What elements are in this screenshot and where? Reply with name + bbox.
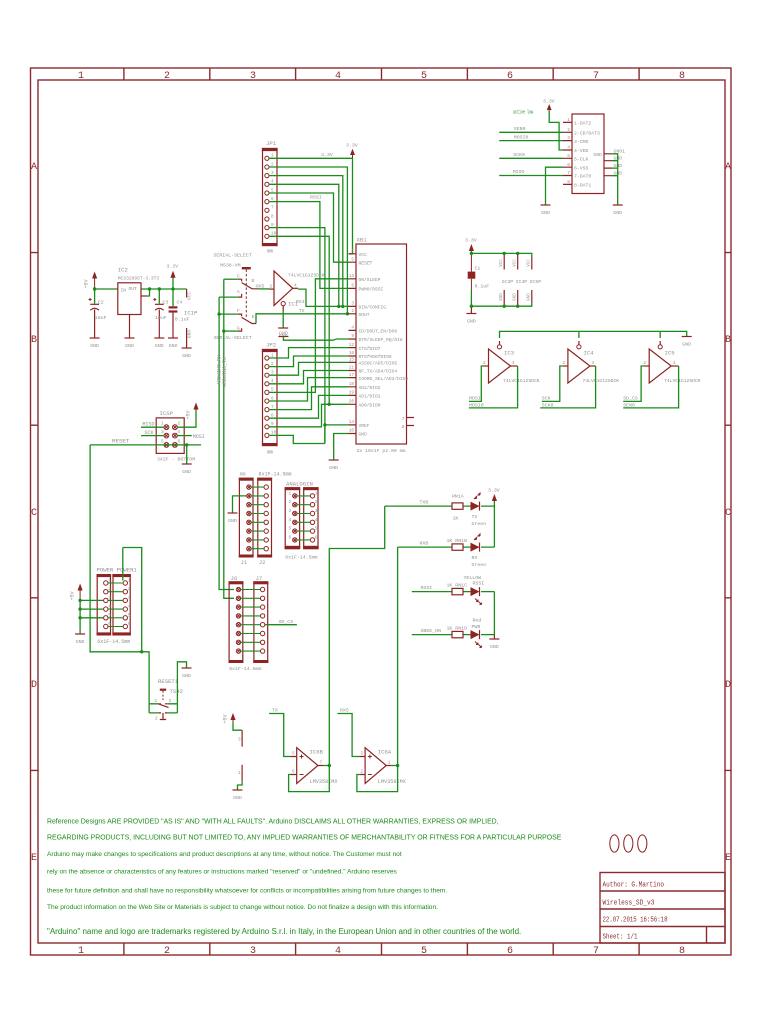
svg-text:RESET: RESET — [112, 438, 130, 445]
svg-text:SEN0: SEN0 — [623, 403, 635, 409]
svg-text:6: 6 — [567, 162, 570, 168]
LED RX — [471, 534, 487, 569]
svg-text:VCC: VCC — [528, 259, 532, 267]
svg-text:0.1uF: 0.1uF — [475, 284, 490, 290]
svg-text:3: 3 — [169, 699, 172, 704]
svg-text:17: 17 — [349, 373, 355, 378]
svg-text:OUT: OUT — [129, 286, 138, 292]
connector ICSP body — [156, 418, 184, 454]
wire SD VSS to GND — [546, 167, 564, 204]
wires J1 to J2 — [251, 487, 263, 549]
SJ pin stubs — [241, 730, 243, 746]
svg-text:RX: RX — [472, 555, 478, 561]
svg-text:GND: GND — [359, 432, 368, 438]
svg-text:DIN/CONFIG: DIN/CONFIG — [359, 305, 387, 311]
wire SJ to GND — [238, 781, 243, 789]
wire JP2 pin7 to XB1 AD2 — [269, 387, 349, 410]
svg-text:PWR: PWR — [472, 624, 481, 630]
J1 pins X — [247, 485, 251, 551]
wire IC1 enable to GND — [282, 311, 284, 328]
svg-text:GND: GND — [541, 210, 550, 216]
svg-text:MOSI0: MOSI0 — [514, 135, 529, 141]
svg-text:3X2F - BOTTOM: 3X2F - BOTTOM — [157, 457, 195, 463]
svg-text:IC1P: IC1P — [184, 310, 198, 317]
svg-text:J6: J6 — [231, 575, 238, 582]
junction dots C1 rails — [470, 252, 520, 308]
svg-text:4: 4 — [592, 361, 595, 366]
wires POWER left feeds — [80, 600, 103, 633]
svg-text:3.3V: 3.3V — [465, 238, 477, 244]
svg-text:rely on the absence or charact: rely on the absence or characteristics o… — [47, 869, 398, 876]
wire IC6B out up to TXB — [329, 506, 384, 765]
svg-text:GND: GND — [279, 331, 288, 337]
svg-text:ICSP: ICSP — [160, 410, 174, 417]
svg-text:mm: mm — [267, 450, 273, 456]
frame inner border — [38, 80, 725, 943]
svg-text:4: 4 — [128, 605, 131, 610]
wire JP2 pin4 to XB1 RF_TX — [269, 371, 349, 384]
svg-text:IC6A: IC6A — [378, 749, 392, 756]
svg-text:AD2/DIO2: AD2/DIO2 — [359, 385, 381, 391]
svg-text:GND: GND — [682, 342, 691, 348]
capacitor C4 — [169, 289, 190, 338]
svg-text:MOSI: MOSI — [193, 434, 205, 440]
svg-text:PWM0/RSSI: PWM0/RSSI — [359, 287, 384, 293]
svg-text:AD0/DIO0: AD0/DIO0 — [359, 403, 381, 409]
GND rail — [471, 303, 531, 307]
button NC stub — [160, 713, 166, 720]
svg-text:8: 8 — [567, 179, 570, 185]
svg-text:B: B — [31, 335, 37, 346]
svg-text:6: 6 — [178, 439, 181, 444]
wires ANALOG pairs — [297, 496, 310, 540]
wire JP1 pin1 to 3.3V / XB1 VCC — [269, 158, 353, 254]
+5V supply arrow POWER — [70, 584, 83, 601]
svg-text:7-DAT0: 7-DAT0 — [574, 174, 591, 180]
junction dots JP1 bundle — [323, 305, 349, 427]
svg-text:SCK0: SCK0 — [513, 152, 525, 158]
frame column numbers bottom — [78, 946, 685, 957]
frame column ticks top — [31, 68, 732, 955]
wire MISO to ICSP — [141, 426, 164, 428]
ground symbol under C2 — [90, 338, 100, 349]
svg-text:IC4: IC4 — [584, 350, 595, 357]
svg-text:C1: C1 — [475, 266, 481, 272]
svg-text:6: 6 — [315, 535, 318, 540]
wire RESET net down-right to RESET1 — [90, 445, 149, 704]
ground symbol right of IC5 — [682, 337, 692, 348]
SD pin stubs right — [604, 154, 613, 176]
wire JP2 pin8 to XB1 AD1 — [269, 395, 349, 418]
svg-text:13: 13 — [349, 274, 355, 279]
svg-text:4: 4 — [289, 518, 292, 523]
svg-text:D: D — [31, 680, 37, 691]
capacitor C1 — [468, 253, 490, 306]
svg-text:5: 5 — [567, 153, 570, 159]
switch contact F — [218, 313, 238, 315]
svg-text:8x1F-14.5mm: 8x1F-14.5mm — [229, 666, 261, 672]
svg-text:GND: GND — [182, 469, 191, 475]
J7 pins O — [260, 587, 264, 653]
svg-text:MISO: MISO — [143, 422, 155, 428]
svg-text:IC5: IC5 — [665, 350, 675, 357]
JP1 pin numbers — [271, 154, 277, 237]
wire TXB row — [385, 505, 495, 507]
svg-text:J1: J1 — [241, 559, 248, 566]
svg-text:C3: C3 — [163, 299, 169, 305]
ANALOG pin numbers — [289, 491, 318, 540]
junction dots switch — [217, 312, 225, 332]
svg-text:10uF: 10uF — [95, 315, 107, 321]
svg-text:IC6B: IC6B — [310, 749, 324, 756]
3.3V supply arrow above C4 — [167, 264, 179, 290]
svg-text:IC3P: IC3P — [502, 279, 514, 285]
svg-text:RXB: RXB — [420, 541, 429, 547]
svg-text:10uF: 10uF — [155, 315, 167, 321]
capacitor C2 — [89, 289, 107, 338]
svg-text:9: 9 — [351, 334, 354, 339]
enable rail to GND — [500, 331, 687, 338]
svg-text:GND: GND — [187, 330, 193, 339]
svg-text:1: 1 — [351, 249, 354, 254]
+5V supply arrow SJ — [223, 713, 236, 724]
buffer IC3 — [483, 341, 540, 384]
wire SEN0 to SD pin2 — [499, 131, 563, 133]
svg-text:2: 2 — [351, 309, 354, 314]
svg-text:MISO: MISO — [513, 169, 525, 175]
wire JP1 pin9 down to VREF stair — [269, 228, 325, 444]
svg-text:11: 11 — [349, 366, 355, 371]
svg-text:ASSOC/AD5/DIO5: ASSOC/AD5/DIO5 — [359, 361, 398, 367]
ground symbol under SJ — [233, 790, 243, 801]
wire switch E to XB1 DOUT — [256, 314, 349, 324]
svg-text:8: 8 — [402, 424, 405, 430]
ground symbol below XB1 — [329, 460, 339, 471]
svg-text:3: 3 — [161, 430, 164, 435]
svg-text:ARDUINO_TX: ARDUINO_TX — [222, 357, 228, 387]
svg-text:RN1A: RN1A — [452, 494, 464, 500]
regulator gnd pin — [129, 315, 131, 338]
svg-text:The product information on the: The product information on the Web Site … — [47, 904, 438, 911]
svg-text:Author: G.Martino: Author: G.Martino — [603, 882, 665, 890]
svg-text:GND: GND — [490, 644, 499, 650]
svg-text:4: 4 — [335, 946, 341, 957]
svg-text:C2: C2 — [98, 299, 104, 305]
buffer IC4 — [563, 341, 620, 384]
3.3V supply arrow C1 — [465, 238, 477, 254]
IC1 output stub — [293, 287, 298, 289]
svg-text:J2: J2 — [259, 559, 266, 566]
mounting hole ellipses — [610, 835, 619, 852]
svg-text:RX5: RX5 — [256, 283, 265, 289]
svg-text:VCC: VCC — [187, 292, 193, 301]
svg-text:GND: GND — [233, 795, 242, 801]
svg-text:3: 3 — [289, 509, 292, 514]
svg-text:DOUT: DOUT — [359, 312, 370, 318]
svg-text:RSSI: RSSI — [473, 581, 485, 587]
wire J1 pin2 to GND — [233, 496, 247, 513]
svg-text:B: B — [725, 335, 731, 346]
resistor RN1B — [447, 538, 468, 550]
connector J7 body — [253, 581, 268, 663]
svg-text:5: 5 — [351, 257, 354, 262]
wire JP2 pin2 to XB1 RTS — [269, 356, 349, 367]
svg-text:ON/SLEEP: ON/SLEEP — [359, 277, 381, 283]
wire RSSI row — [412, 591, 495, 593]
connector JP1 body — [262, 140, 278, 255]
svg-text:GND: GND — [90, 343, 99, 349]
svg-text:3: 3 — [250, 71, 256, 82]
resistor RN1D — [447, 626, 468, 638]
svg-text:+5V: +5V — [223, 714, 229, 723]
resistor RN1A — [452, 494, 464, 522]
svg-text:3.3V: 3.3V — [321, 152, 333, 158]
wire RXB row — [398, 546, 495, 548]
VCC rail — [471, 253, 531, 257]
ground symbol under C1 — [466, 314, 476, 325]
op-amp IC6A — [359, 748, 406, 785]
svg-text:JP2: JP2 — [266, 342, 276, 349]
LED RSSI — [471, 587, 482, 604]
svg-text:MC33269ST-3.3T3: MC33269ST-3.3T3 — [118, 276, 160, 282]
svg-text:1: 1 — [128, 579, 131, 584]
svg-text:2: 2 — [289, 500, 292, 505]
svg-text:Arduino may make changes to sp: Arduino may make changes to specificatio… — [47, 851, 402, 858]
switch contact C — [224, 278, 238, 280]
frame outer border — [31, 68, 732, 955]
wires J6 to J7 — [241, 590, 260, 652]
ground symbol under IC2 — [125, 338, 135, 349]
ground symbol under ICSP — [182, 464, 192, 475]
3.3V supply arrow SD — [543, 99, 555, 111]
svg-text:C: C — [725, 508, 731, 519]
svg-text:7: 7 — [593, 71, 599, 82]
wire JP2 pin1 to XB1 CTS — [269, 348, 349, 358]
svg-text:XBEE_ON: XBEE_ON — [421, 628, 442, 634]
regulator out pin jog — [141, 295, 147, 297]
ground symbol under IC1P — [182, 348, 192, 359]
button contacts row1 — [149, 703, 177, 705]
XB1 pin numbers — [349, 249, 355, 434]
C1 gnd stub — [470, 306, 472, 313]
wire IC1 out to XB1 DIN — [298, 289, 349, 306]
svg-text:SERIAL-SELECT: SERIAL-SELECT — [214, 253, 252, 259]
svg-text:GND: GND — [500, 293, 504, 301]
svg-text:7: 7 — [567, 170, 570, 176]
svg-text:3: 3 — [250, 946, 256, 957]
svg-text:1: 1 — [161, 422, 164, 427]
connector ANALOG left body — [285, 487, 301, 549]
svg-text:RX3: RX3 — [296, 299, 305, 305]
svg-text:RSSI: RSSI — [421, 585, 433, 591]
svg-text:2: 2 — [155, 716, 158, 721]
svg-text:JP1: JP1 — [266, 140, 277, 147]
svg-text:Green: Green — [472, 521, 487, 527]
ground symbol under C4 — [168, 338, 178, 349]
svg-text:SD_CS: SD_CS — [279, 619, 294, 625]
wire switch C-G vertical down to J6 pin2 — [224, 279, 234, 598]
svg-text:4: 4 — [335, 71, 341, 82]
switch contact A — [219, 296, 238, 298]
svg-text:GND: GND — [613, 210, 622, 216]
svg-text:6x1F-14.5mm: 6x1F-14.5mm — [285, 555, 317, 561]
frame row letters — [31, 162, 731, 864]
svg-text:5: 5 — [161, 439, 164, 444]
svg-text:REGARDING PRODUCTS, INCLUDING: REGARDING PRODUCTS, INCLUDING BUT NOT LI… — [47, 835, 562, 842]
svg-text:3: 3 — [238, 738, 241, 743]
svg-text:1: 1 — [388, 761, 391, 766]
buffer IC5 — [644, 341, 701, 384]
svg-text:1: 1 — [155, 699, 158, 704]
svg-text:C: C — [237, 274, 240, 280]
ANALOG right pins O — [310, 494, 314, 542]
wire button to GND — [177, 662, 186, 704]
svg-text:3: 3 — [315, 509, 318, 514]
LED TX — [471, 493, 487, 528]
svg-text:1: 1 — [315, 491, 318, 496]
svg-text:GND: GND — [593, 152, 602, 158]
svg-text:5: 5 — [421, 946, 427, 957]
svg-text:5-CLK: 5-CLK — [574, 157, 589, 163]
wire ICSP pin2 to +5V — [178, 409, 197, 427]
svg-text:RX5: RX5 — [340, 708, 349, 714]
svg-text:3.3V: 3.3V — [346, 143, 358, 149]
XB1 left pin stubs — [349, 254, 357, 434]
svg-text:2: 2 — [164, 946, 170, 957]
svg-text:3: 3 — [128, 596, 131, 601]
ground symbol below SD left — [541, 205, 551, 216]
wire XBEE_ON row — [412, 634, 495, 636]
svg-text:IC4P: IC4P — [516, 279, 528, 285]
switch arm 1 B — [242, 283, 258, 289]
wire 3.3V to SD VDD — [549, 111, 563, 151]
svg-text:VCC: VCC — [514, 259, 518, 267]
svg-text:CD/DOUT_EN/DO8: CD/DOUT_EN/DO8 — [359, 329, 398, 335]
svg-text:+5V: +5V — [70, 591, 76, 600]
svg-text:XB1: XB1 — [357, 237, 368, 244]
svg-text:16: 16 — [349, 351, 355, 356]
svg-text:F: F — [237, 308, 240, 314]
wire JP2 pin3 to XB1 ASSOC — [269, 362, 349, 375]
svg-text:GND: GND — [125, 343, 134, 349]
svg-text:8x1F-14.5mm: 8x1F-14.5mm — [259, 472, 292, 478]
svg-text:6-VSS: 6-VSS — [574, 165, 589, 171]
svg-text:1-DAT2: 1-DAT2 — [574, 121, 591, 127]
connector ANALOG right body — [303, 487, 319, 549]
3.3V rail wire — [95, 288, 187, 290]
title block — [600, 873, 725, 944]
button side verticals — [149, 704, 177, 713]
wire MOSI into IC3 — [469, 366, 483, 401]
svg-text:2: 2 — [563, 361, 566, 366]
wire TX to IC6B +in — [269, 714, 291, 757]
wire JP2 pin5 to XB1 ON/SLEEP — [269, 279, 349, 393]
wire JP1 pin6 to XB1 RSSI — [269, 202, 349, 289]
svg-text:2: 2 — [644, 361, 647, 366]
svg-text:IN: IN — [121, 288, 127, 294]
ground symbol below SD right — [613, 205, 623, 216]
SD right GND pin labels — [614, 149, 626, 177]
svg-text:5: 5 — [292, 752, 295, 757]
svg-text:1K RN1D: 1K RN1D — [447, 626, 468, 632]
svg-text:GND: GND — [514, 293, 518, 301]
svg-text:MS38-VM: MS38-VM — [220, 263, 241, 269]
svg-text:1K RN1B: 1K RN1B — [447, 538, 468, 544]
ground symbol IC1 — [278, 328, 288, 339]
JP1 pin circles — [265, 156, 269, 238]
svg-text:GND: GND — [329, 465, 338, 471]
svg-text:2: 2 — [164, 71, 170, 82]
svg-text:3: 3 — [360, 752, 363, 757]
svg-text:Green: Green — [472, 562, 487, 568]
wire LED rail 3.3V — [493, 501, 495, 547]
J6 pins X — [236, 587, 240, 653]
svg-text:GND: GND — [76, 639, 85, 645]
connector POWER right body — [112, 574, 130, 635]
svg-text:SEN0: SEN0 — [514, 126, 526, 132]
svg-text:CTS/DIO7: CTS/DIO7 — [359, 346, 381, 352]
wire RX5 to IC6A +in — [337, 714, 359, 757]
svg-text:5: 5 — [421, 71, 427, 82]
svg-text:VCC: VCC — [359, 252, 368, 258]
svg-text:E: E — [725, 853, 731, 864]
svg-text:12: 12 — [349, 343, 355, 348]
svg-text:Reference Designs ARE PROVIDED: Reference Designs ARE PROVIDED "AS IS" A… — [47, 819, 499, 826]
ground symbol right of button — [182, 668, 192, 679]
svg-text:3.3V: 3.3V — [488, 488, 500, 494]
svg-text:J7: J7 — [256, 575, 263, 582]
switch contact G — [224, 330, 238, 332]
svg-text:6: 6 — [507, 71, 513, 82]
svg-text:7: 7 — [593, 946, 599, 957]
connector JP2 body — [262, 342, 278, 456]
J2 pins O — [264, 485, 268, 551]
svg-text:GND: GND — [155, 343, 164, 349]
wire RSSI to XBEE_ON rail — [493, 592, 495, 635]
svg-text:19: 19 — [349, 391, 355, 396]
svg-text:YELLOW: YELLOW — [464, 575, 482, 581]
wire MISO to SD pin7 — [499, 175, 563, 177]
wire JP2 pin6 to XB1 COORD_SEL — [269, 378, 349, 401]
wire SCK into IC4 — [542, 366, 563, 401]
LED PWR — [471, 630, 482, 647]
svg-text:RESET: RESET — [359, 260, 373, 266]
button contacts row2 — [149, 712, 177, 714]
wire XB1 GND pin down — [334, 434, 349, 460]
POWER pin numbers — [108, 579, 131, 628]
wire JP2 pin10 to XB1 VREF — [269, 425, 349, 444]
power pins IC1P — [184, 289, 198, 348]
svg-text:RSSI: RSSI — [310, 195, 322, 201]
switch arm 2 E — [242, 317, 256, 323]
ground symbol above JP2 — [278, 331, 288, 337]
svg-text:6: 6 — [292, 770, 295, 775]
wire IC6A feedback — [357, 766, 398, 792]
svg-text:RF_TX/AD4/DIO4: RF_TX/AD4/DIO4 — [359, 369, 398, 375]
wire POWER right loop — [123, 548, 142, 652]
svg-text:GND: GND — [182, 673, 191, 679]
power pins IC4P — [514, 253, 528, 306]
svg-text:POWER POWER1: POWER POWER1 — [97, 567, 138, 574]
wire +5V to SJ pin — [233, 723, 242, 730]
svg-text:ANALOGIN: ANALOGIN — [286, 481, 313, 488]
wire JP1 pin4 — [269, 184, 339, 306]
svg-text:3: 3 — [351, 302, 354, 307]
resistor RN1C — [447, 583, 468, 595]
svg-text:E: E — [252, 314, 255, 320]
regulator IC2 body — [118, 283, 141, 315]
ANALOG left pins X — [293, 494, 297, 542]
